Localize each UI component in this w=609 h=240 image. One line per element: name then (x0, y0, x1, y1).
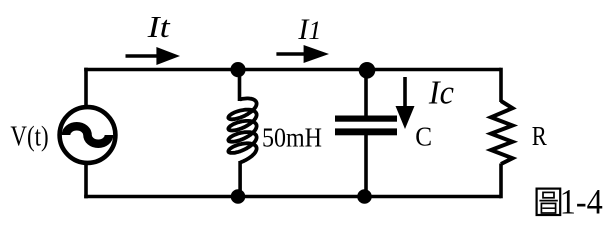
svg-text:R: R (532, 120, 548, 151)
svg-text:50mH: 50mH (262, 122, 322, 153)
svg-text:Ic: Ic (428, 75, 454, 112)
svg-text:V(t): V(t) (10, 122, 48, 153)
svg-text:C: C (415, 121, 432, 152)
svg-text:I1: I1 (297, 13, 321, 46)
svg-text:It: It (146, 9, 171, 44)
svg-text:1-4: 1-4 (560, 182, 603, 220)
